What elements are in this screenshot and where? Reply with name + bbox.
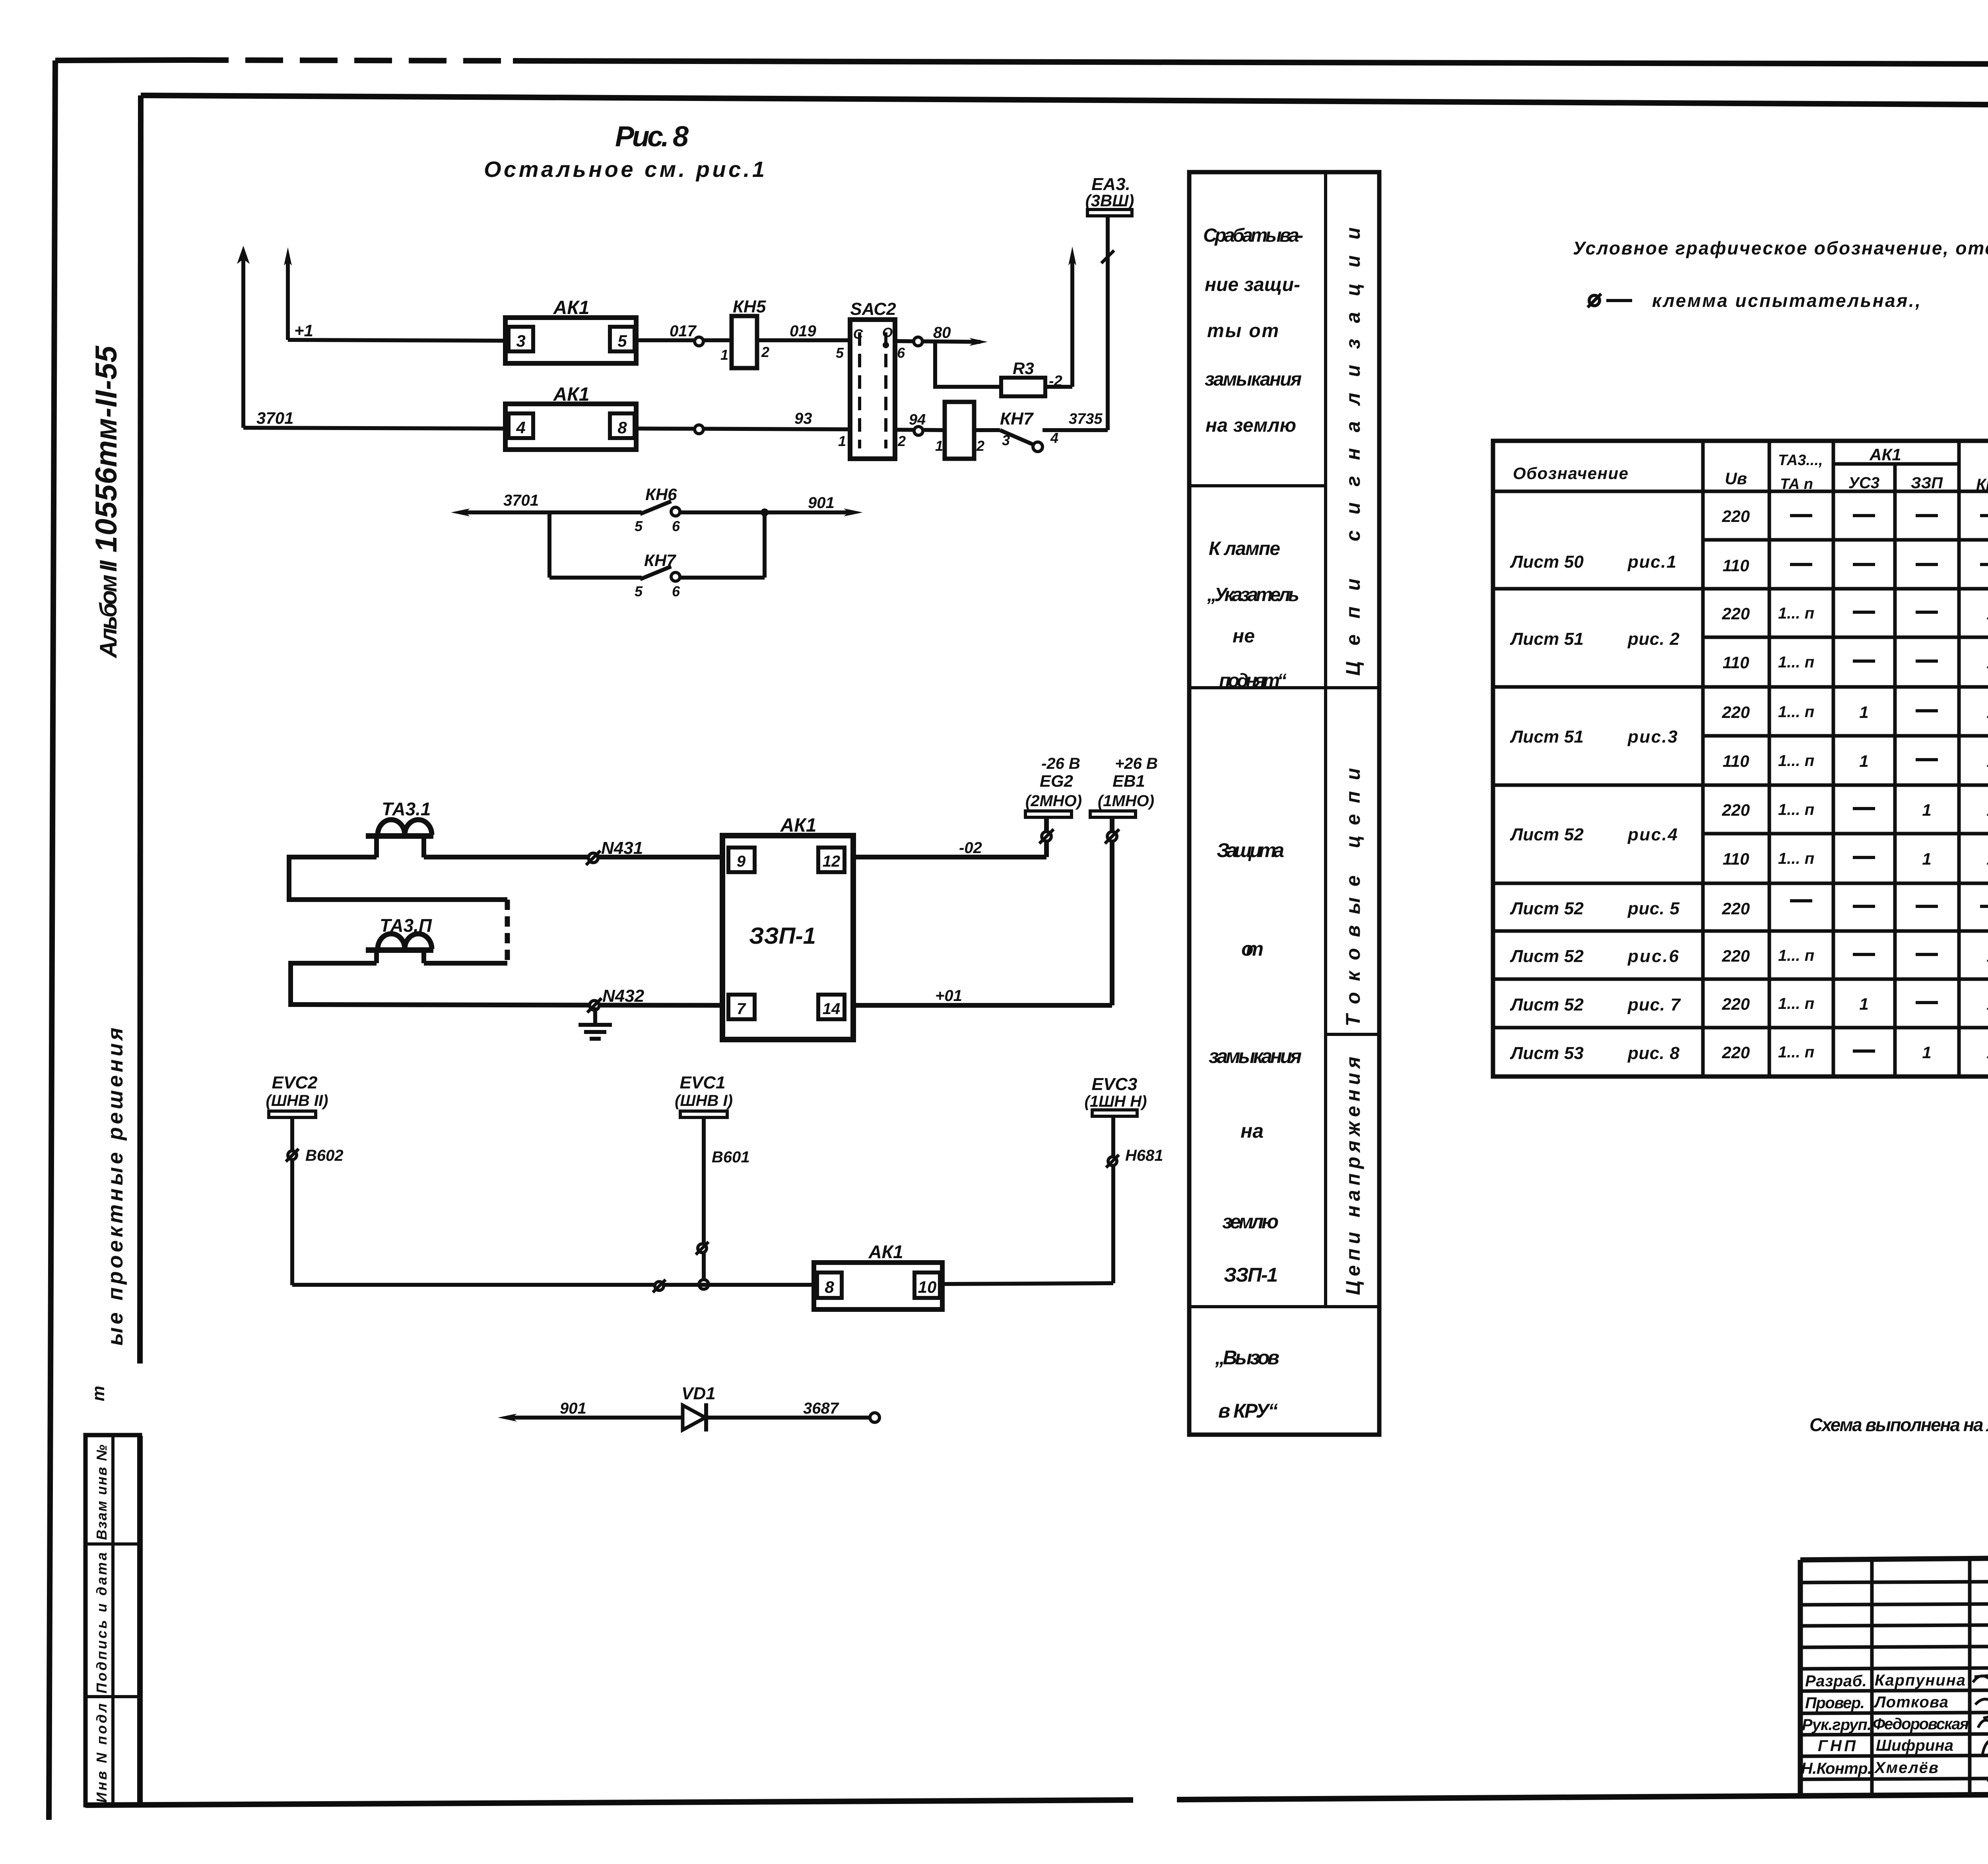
svg-text:14: 14	[823, 1000, 841, 1018]
drawing frame left	[140, 95, 141, 1364]
current transformer TA3.1	[366, 820, 433, 857]
svg-text:10: 10	[918, 1278, 937, 1296]
svg-text:(2МНО): (2МНО)	[1025, 792, 1082, 810]
svg-text:1... п: 1... п	[1778, 654, 1814, 671]
svg-text:Провер.: Провер.	[1805, 1694, 1865, 1712]
table row labels	[1510, 552, 1681, 1063]
svg-text:рис.4: рис.4	[1627, 825, 1677, 844]
svg-text:УС3: УС3	[1848, 474, 1879, 492]
KH7 contact blade 3-4	[974, 430, 1108, 452]
svg-text:Лист 53: Лист 53	[1510, 1044, 1584, 1063]
svg-text:5: 5	[635, 518, 643, 534]
svg-text:поднят“: поднят“	[1219, 670, 1287, 691]
wire 017	[636, 337, 732, 346]
svg-text:1: 1	[1986, 850, 1988, 868]
svg-text:(1ШН Н): (1ШН Н)	[1085, 1093, 1147, 1110]
table Uв values	[1722, 507, 1750, 1062]
svg-text:1... п: 1... п	[1778, 947, 1814, 964]
wire junction drop right	[763, 512, 767, 578]
terminal EVC1	[675, 1073, 733, 1117]
svg-text:-26 В: -26 В	[1041, 755, 1080, 772]
svg-text:КН7: КН7	[644, 551, 676, 570]
svg-text:110: 110	[1723, 556, 1749, 575]
pushbutton KH5	[732, 316, 757, 368]
svg-text:Разраб.: Разраб.	[1805, 1672, 1867, 1690]
svg-text:КН7: КН7	[1000, 409, 1034, 429]
wire riser EG2	[1039, 817, 1054, 857]
wire 901 diode with left arrow	[498, 1414, 683, 1422]
wire R3 to riser	[1045, 385, 1072, 389]
wire 019	[757, 338, 850, 342]
switch KH6	[640, 501, 765, 516]
svg-text:1: 1	[1859, 995, 1868, 1013]
svg-text:Лист 52: Лист 52	[1510, 825, 1584, 844]
svg-text:1: 1	[1986, 801, 1988, 819]
svg-text:1: 1	[720, 347, 728, 363]
page outer border left	[49, 60, 55, 1820]
svg-text:3687: 3687	[803, 1400, 839, 1417]
svg-text:Схема выполнена на листах: Схема выполнена на листах 50, 51, 52, 53…	[1809, 1414, 1988, 1435]
wire -02	[853, 855, 1046, 859]
svg-text:R3: R3	[1013, 359, 1034, 378]
wire +01	[853, 1003, 1112, 1008]
svg-text:АК1: АК1	[1869, 445, 1901, 464]
svg-text:клемма испытательная.,: клемма испытательная.,	[1652, 290, 1920, 311]
svg-text:019: 019	[790, 322, 816, 340]
svg-text:Рис. 8: Рис. 8	[615, 121, 689, 153]
svg-text:ЕVС2: ЕVС2	[272, 1073, 318, 1092]
svg-text:2: 2	[976, 438, 984, 454]
svg-text:N431: N431	[601, 838, 643, 858]
wire row1 to AK1	[288, 340, 505, 341]
svg-text:в КРУ“: в КРУ“	[1218, 1400, 1278, 1422]
svg-text:3: 3	[516, 332, 525, 350]
legend row1 text	[1203, 225, 1303, 436]
svg-text:220: 220	[1722, 604, 1750, 623]
svg-text:1... п: 1... п	[1778, 752, 1814, 770]
svg-text:1: 1	[1859, 703, 1868, 722]
svg-text:„Вызов: „Вызов	[1215, 1346, 1279, 1369]
table dash marks	[1790, 516, 1988, 1051]
svg-text:(1МНО): (1МНО)	[1098, 792, 1154, 810]
resistor R3	[1001, 378, 1045, 396]
svg-text:на: на	[1241, 1120, 1264, 1142]
svg-text:220: 220	[1722, 1043, 1750, 1062]
svg-text:3701: 3701	[503, 492, 539, 509]
svg-text:Цепи напряжения: Цепи напряжения	[1342, 1057, 1364, 1295]
svg-text:Н681: Н681	[1125, 1147, 1163, 1164]
svg-text:(3ВШ): (3ВШ)	[1085, 191, 1134, 210]
svg-text:1: 1	[1986, 604, 1988, 623]
svg-text:1: 1	[1986, 947, 1988, 965]
svg-text:4: 4	[516, 418, 525, 437]
svg-text:ТА3.П: ТА3.П	[380, 915, 432, 936]
svg-text:КН7: КН7	[1976, 476, 1988, 493]
svg-text:ЕVС1: ЕVС1	[680, 1073, 726, 1092]
wire 93	[636, 425, 850, 434]
svg-text:на землю: на землю	[1206, 415, 1296, 436]
svg-text:+26 В: +26 В	[1115, 755, 1158, 772]
table value 1 marks	[1859, 604, 1988, 1062]
svg-text:ЗЗП-1: ЗЗП-1	[749, 923, 816, 949]
bottom wire EVC2 to AK1	[292, 1280, 814, 1292]
svg-text:6: 6	[897, 345, 905, 361]
wire EVC3 down	[1106, 1116, 1119, 1283]
wire EVC2 down	[286, 1117, 299, 1285]
svg-text:6: 6	[672, 583, 680, 599]
wire EA3 down to 3735	[1106, 216, 1110, 430]
terminal EB1	[1090, 755, 1158, 817]
wire junction drop left	[547, 512, 551, 578]
svg-text:О: О	[882, 325, 893, 340]
svg-text:С: С	[853, 327, 863, 342]
switch KH7 (parallel branch)	[549, 566, 765, 581]
svg-text:ТА3.1: ТА3.1	[382, 799, 431, 819]
svg-text:Н.Контр.: Н.Контр.	[1801, 1760, 1872, 1777]
wire N431	[424, 851, 722, 865]
svg-text:1: 1	[1986, 995, 1988, 1013]
wire EVC1 down	[696, 1117, 709, 1289]
svg-text:+01: +01	[935, 987, 962, 1005]
svg-text:220: 220	[1722, 507, 1750, 526]
svg-text:220: 220	[1722, 703, 1750, 722]
svg-text:8: 8	[617, 418, 627, 437]
svg-text:7: 7	[737, 1000, 746, 1018]
svg-text:220: 220	[1722, 947, 1750, 965]
svg-text:1: 1	[1986, 1043, 1988, 1062]
svg-text:Лист 52: Лист 52	[1510, 995, 1584, 1014]
svg-text:1: 1	[1859, 752, 1868, 770]
svg-text:рис. 2: рис. 2	[1627, 629, 1680, 649]
svg-text:1... п: 1... п	[1778, 1044, 1814, 1061]
svg-text:901: 901	[560, 1400, 586, 1417]
svg-text:1... п: 1... п	[1778, 850, 1814, 867]
svg-text:1: 1	[1922, 850, 1931, 868]
svg-text:12: 12	[823, 853, 841, 870]
svg-text:КН6: КН6	[645, 485, 677, 504]
svg-text:КН5: КН5	[733, 297, 766, 316]
svg-text:ние защи-: ние защи-	[1205, 274, 1300, 295]
svg-text:рис. 8: рис. 8	[1627, 1044, 1680, 1063]
svg-text:4: 4	[1050, 430, 1058, 446]
svg-text:„Указатель: „Указатель	[1207, 584, 1299, 605]
svg-text:ГНП: ГНП	[1818, 1737, 1856, 1755]
svg-text:1: 1	[1986, 653, 1988, 672]
svg-text:Срабатыва-: Срабатыва-	[1203, 225, 1303, 246]
svg-text:3735: 3735	[1069, 411, 1103, 427]
svg-text:3701: 3701	[256, 409, 293, 427]
svg-text:Лист 51: Лист 51	[1510, 629, 1584, 649]
svg-text:80: 80	[933, 324, 951, 341]
svg-text:замыкания: замыкания	[1209, 1045, 1302, 1067]
wire 94	[895, 427, 945, 435]
page outer border top	[55, 60, 191, 60]
svg-text:от: от	[1241, 938, 1264, 960]
svg-text:Хмелёв: Хмелёв	[1874, 1759, 1938, 1777]
svg-text:Рук.груп.: Рук.груп.	[1802, 1716, 1872, 1734]
svg-text:N432: N432	[602, 986, 645, 1006]
svg-text:110: 110	[1723, 653, 1749, 672]
svg-text:АК1: АК1	[553, 297, 590, 318]
svg-text:Лист 52: Лист 52	[1510, 947, 1584, 966]
svg-text:Цепи сигнализации: Цепи сигнализации	[1342, 227, 1364, 676]
terminal EVC3	[1085, 1075, 1147, 1116]
svg-text:Остальное см. рис.1: Остальное см. рис.1	[484, 157, 765, 182]
svg-text:Альбом II: Альбом II	[95, 560, 122, 659]
svg-text:Условное графическое обозна: Условное графическое обозначение, отсутс…	[1573, 238, 1988, 258]
svg-text:93: 93	[794, 410, 812, 427]
wire 3701 row2	[243, 428, 505, 429]
node N432 slash	[587, 998, 602, 1012]
svg-text:901: 901	[808, 494, 835, 512]
svg-text:1... п: 1... п	[1778, 703, 1814, 721]
svg-text:рис. 5: рис. 5	[1627, 899, 1680, 918]
svg-text:8: 8	[825, 1278, 834, 1296]
svg-text:1... п: 1... п	[1778, 995, 1814, 1012]
wire branch to R3	[935, 342, 1001, 387]
svg-text:т: т	[89, 1386, 108, 1401]
svg-text:ЕG2: ЕG2	[1040, 772, 1073, 790]
relay contact block AK1 (row 3)	[814, 1263, 942, 1309]
wire TA3.1 loop left	[289, 857, 507, 900]
wire 901 with right arrow	[761, 508, 863, 516]
svg-text:1: 1	[1922, 1043, 1931, 1062]
relay unit ЗЗП-1 (AK1)	[722, 836, 853, 1040]
wire AK1 to EVC3	[942, 1283, 1113, 1284]
svg-text:1... п: 1... п	[1778, 801, 1814, 819]
svg-text:В602: В602	[305, 1147, 344, 1164]
svg-text:АК1: АК1	[780, 815, 817, 836]
svg-text:В601: В601	[712, 1148, 750, 1166]
svg-text:+1: +1	[294, 321, 313, 340]
svg-text:5: 5	[836, 345, 844, 361]
current transformer TA3.П	[366, 934, 433, 963]
terminal EVC2	[269, 1111, 316, 1117]
node arrow (left bus)	[237, 246, 250, 428]
svg-text:ЕVС3: ЕVС3	[1092, 1075, 1138, 1094]
svg-text:(ШНВ I): (ШНВ I)	[675, 1092, 733, 1109]
drawing frame top	[141, 95, 1988, 107]
terminal EG2	[1025, 755, 1082, 817]
svg-text:1: 1	[838, 433, 846, 449]
svg-text:-02: -02	[959, 839, 982, 857]
svg-text:Лист 52: Лист 52	[1510, 899, 1584, 918]
svg-text:Карпунина: Карпунина	[1875, 1672, 1965, 1689]
title block frame	[1800, 1554, 1988, 1796]
legend row2 text	[1207, 538, 1299, 691]
svg-text:2: 2	[761, 344, 769, 360]
svg-text:рис.1: рис.1	[1627, 552, 1676, 572]
relay contact block AK1 (row 2)	[505, 404, 636, 450]
wire TA3.П right to link	[424, 961, 507, 966]
wire riser with up arrow	[1068, 246, 1076, 387]
svg-text:ТА n: ТА n	[1780, 476, 1813, 493]
signature column labels	[1801, 1672, 1969, 1777]
component count table frame	[1493, 441, 1988, 1077]
svg-text:замыкания: замыкания	[1205, 369, 1302, 390]
switch unit SAC2	[850, 320, 895, 459]
svg-text:Лист 50: Лист 50	[1510, 552, 1584, 572]
svg-text:АК1: АК1	[553, 384, 590, 405]
svg-text:3: 3	[1002, 432, 1010, 448]
drawing frame bottom	[85, 1800, 1133, 1805]
svg-text:ты от: ты от	[1207, 320, 1279, 341]
svg-text:9: 9	[737, 853, 746, 870]
svg-text:не: не	[1233, 626, 1255, 647]
svg-text:Федоровская: Федоровская	[1873, 1715, 1969, 1733]
table header texts	[1513, 445, 1988, 493]
svg-text:землю: землю	[1222, 1210, 1279, 1233]
svg-text:220: 220	[1722, 899, 1750, 918]
svg-text:Защита: Защита	[1217, 839, 1284, 861]
svg-text:рис. 7: рис. 7	[1627, 995, 1681, 1014]
svg-text:ЗЗП-1: ЗЗП-1	[1224, 1264, 1278, 1286]
svg-text:10556тм-II-55: 10556тм-II-55	[89, 345, 123, 553]
svg-text:рис.3: рис.3	[1627, 727, 1677, 747]
wire vertical link (dotted)	[505, 900, 510, 963]
svg-text:ЗЗП: ЗЗП	[1911, 474, 1943, 492]
svg-text:К лампе: К лампе	[1209, 538, 1280, 559]
svg-text:2: 2	[897, 433, 906, 449]
legend row4 text	[1215, 1346, 1279, 1422]
svg-text:Взам инв №: Взам инв №	[93, 1445, 110, 1540]
margin stamp table	[85, 1435, 140, 1805]
wire TA3.П loop left to N432	[291, 963, 722, 1005]
svg-text:220: 220	[1722, 995, 1750, 1013]
svg-text:(ШНВ II): (ШНВ II)	[266, 1092, 328, 1109]
svg-text:6: 6	[672, 518, 680, 534]
wire 80 with arrow	[895, 337, 988, 346]
svg-text:рис.6: рис.6	[1627, 947, 1679, 966]
svg-text:ТА3...,: ТА3...,	[1778, 452, 1823, 469]
wire 3687	[706, 1413, 879, 1422]
svg-text:Шифрина: Шифрина	[1876, 1737, 1953, 1754]
wire 3701 (lower pair) with left arrow	[451, 508, 642, 516]
svg-text:1: 1	[1986, 752, 1988, 770]
test clamp slash on EA3 wire	[1101, 250, 1114, 263]
ground	[579, 1007, 612, 1039]
svg-text:1: 1	[1986, 703, 1988, 722]
svg-text:Обозначение: Обозначение	[1513, 464, 1628, 483]
legend row3 text	[1209, 839, 1302, 1286]
svg-text:Лист 51: Лист 51	[1510, 727, 1584, 747]
svg-text:Лоткова: Лоткова	[1873, 1693, 1948, 1711]
pushbutton KH7 block	[945, 402, 974, 459]
svg-text:110: 110	[1723, 850, 1749, 868]
svg-text:SАС2: SАС2	[850, 299, 896, 319]
svg-text:110: 110	[1723, 752, 1749, 770]
svg-text:Инв N подл: Инв N подл	[93, 1703, 110, 1803]
svg-text:5: 5	[635, 583, 643, 599]
svg-text:017: 017	[670, 322, 697, 340]
svg-text:АК1: АК1	[868, 1241, 903, 1262]
svg-text:94: 94	[909, 411, 926, 428]
test clamp symbol (legend note)	[1588, 294, 1632, 307]
svg-text:VD1: VD1	[681, 1384, 716, 1403]
svg-text:ЕВ1: ЕВ1	[1112, 772, 1145, 790]
wire +1 vertical	[284, 247, 292, 340]
legend table frame	[1189, 172, 1379, 1435]
terminal bar EA3	[1087, 209, 1132, 216]
signature squiggles	[1973, 1673, 1988, 1796]
table ТА column values 1...n	[1778, 605, 1814, 1061]
svg-text:1... п: 1... п	[1778, 605, 1814, 622]
diode VD1	[683, 1403, 706, 1431]
wire riser EB1	[1105, 817, 1119, 1005]
svg-text:220: 220	[1722, 801, 1750, 819]
svg-text:Uв: Uв	[1725, 469, 1747, 488]
svg-text:1: 1	[1922, 801, 1931, 819]
relay contact block AK1 (row 1)	[505, 318, 636, 363]
svg-text:5: 5	[617, 332, 627, 350]
svg-text:1: 1	[935, 438, 943, 454]
